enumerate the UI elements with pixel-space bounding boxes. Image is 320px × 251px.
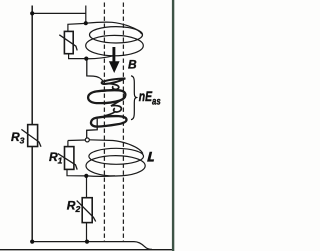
- svg-text:R2: R2: [67, 199, 81, 215]
- svg-text:R3: R3: [11, 130, 25, 146]
- svg-text:R1: R1: [49, 150, 63, 166]
- svg-text:nEas: nEas: [139, 88, 161, 106]
- svg-text:B: B: [128, 58, 137, 72]
